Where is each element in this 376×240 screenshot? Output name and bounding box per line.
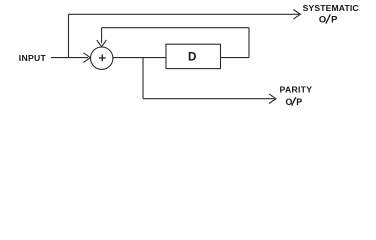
wire: feedback top horizontal: [102, 27, 249, 29]
arrowhead systematic output: [293, 10, 300, 20]
wire: INPUT line to adder: [51, 57, 88, 59]
wire: adder output to D input: [113, 57, 166, 59]
svg-text:INPUT: INPUT: [19, 53, 47, 63]
delay block D: [166, 44, 221, 68]
arrowhead parity output: [269, 94, 276, 104]
arrowhead into adder top: [97, 40, 107, 47]
plus sign inside adder: [99, 55, 106, 62]
svg-text:SYSTEMATIC: SYSTEMATIC: [303, 3, 359, 13]
svg-text:O: O: [319, 14, 326, 25]
wire: parity branch vertical: [142, 58, 144, 99]
svg-text:P: P: [296, 97, 302, 107]
wire: feedback right vertical: [248, 28, 250, 58]
adder U1 (XOR) circle: [91, 47, 113, 69]
arrowhead into adder left: [84, 53, 91, 63]
wire: systematic branch vertical: [68, 14, 70, 57]
wire: feedback from D output: [221, 57, 250, 59]
wire: feedback down into adder top: [101, 28, 103, 43]
svg-text:PARITY: PARITY: [280, 85, 313, 95]
svg-text:P: P: [331, 14, 337, 25]
svg-text:D: D: [188, 50, 196, 63]
wire: systematic horizontal to output: [69, 13, 300, 15]
wire: parity horizontal to output: [143, 98, 275, 100]
